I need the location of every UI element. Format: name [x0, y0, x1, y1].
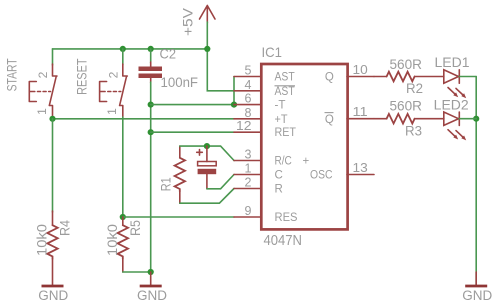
node C1 top junction	[204, 143, 210, 149]
pin 6 -T	[234, 92, 286, 112]
resistor R4	[35, 211, 73, 286]
pin 8 +T	[234, 106, 288, 126]
LED2	[434, 97, 469, 140]
node RES tap junction	[120, 214, 126, 220]
svg-text:AST: AST	[275, 86, 295, 98]
svg-text:Q: Q	[325, 114, 334, 126]
IC U1 4047N box	[261, 44, 347, 249]
wire row pin9 RES	[123, 216, 234, 218]
node junction top rail at RESET	[120, 46, 126, 52]
wire LED2 to right rail	[459, 118, 476, 120]
wire row pin12	[151, 131, 234, 133]
svg-text:5: 5	[245, 64, 252, 78]
svg-text:9: 9	[245, 204, 252, 218]
svg-text:3: 3	[245, 148, 252, 162]
svg-text:+: +	[303, 156, 310, 168]
svg-text:LED1: LED1	[435, 55, 470, 70]
svg-text:560R: 560R	[390, 57, 423, 72]
pin 5 AST	[234, 64, 295, 84]
svg-text:GND: GND	[462, 288, 492, 303]
wire C1 bottom net to pin1	[207, 175, 234, 189]
svg-text:C: C	[275, 170, 283, 182]
svg-text:R4: R4	[58, 220, 73, 236]
svg-text:IC1: IC1	[262, 44, 283, 60]
node START bottom junction	[49, 116, 55, 122]
svg-text:RESET: RESET	[74, 58, 90, 95]
svg-text:2: 2	[106, 71, 120, 78]
ground GND3	[462, 272, 492, 303]
svg-text:R1: R1	[159, 177, 174, 191]
svg-text:10k0: 10k0	[105, 224, 120, 256]
svg-text:R5: R5	[128, 220, 143, 236]
node junction top rail at C2	[148, 46, 154, 52]
svg-text:R2: R2	[406, 81, 423, 96]
svg-text:1: 1	[35, 108, 49, 115]
resistor R1	[159, 146, 186, 203]
svg-text:C2: C2	[160, 47, 177, 62]
svg-text:START: START	[4, 58, 20, 91]
pin 11 /Q	[325, 105, 375, 126]
node row12 tap junction	[148, 129, 154, 135]
wire START top drop	[52, 49, 54, 65]
switch S2 RESET	[100, 64, 128, 118]
svg-text:13: 13	[353, 161, 368, 175]
switch S1 START	[29, 64, 57, 118]
wire R1 top net to pin3	[180, 146, 234, 160]
svg-text:4: 4	[245, 78, 252, 92]
wire row pin6	[151, 104, 234, 106]
resistor R5	[105, 217, 143, 272]
svg-text:12: 12	[236, 119, 252, 133]
svg-text:AST: AST	[275, 72, 295, 84]
svg-text:RES: RES	[275, 212, 298, 224]
pin 10 Q	[325, 63, 374, 84]
node R5 ground junction	[148, 269, 154, 275]
svg-text:R: R	[275, 184, 283, 196]
wire C2 ground column	[150, 82, 152, 272]
svg-text:560R: 560R	[390, 99, 423, 114]
wire RESET top drop	[122, 49, 124, 65]
capacitor C2	[139, 47, 199, 90]
svg-text:R3: R3	[405, 123, 422, 138]
svg-text:Q: Q	[325, 72, 334, 84]
svg-text:4047N: 4047N	[264, 233, 303, 249]
svg-text:GND: GND	[137, 288, 167, 303]
ground GND2	[137, 272, 167, 303]
svg-text:1: 1	[245, 162, 252, 176]
wire RESET column down to R5	[122, 117, 124, 217]
wire row pin8	[53, 118, 235, 120]
pin 9 RES	[234, 204, 298, 224]
svg-text:100nF: 100nF	[161, 75, 199, 90]
svg-text:11: 11	[353, 105, 368, 119]
svg-text:10: 10	[353, 63, 368, 77]
resistor R2 560R	[374, 57, 444, 96]
node junction top rail at +5V	[204, 46, 210, 52]
node pins tie junction	[231, 102, 237, 108]
svg-text:+5V: +5V	[181, 8, 196, 36]
svg-text:R/C: R/C	[275, 156, 292, 168]
pin 1 C	[234, 162, 283, 182]
svg-text:RET: RET	[275, 127, 297, 139]
svg-text:OSC: OSC	[310, 170, 333, 182]
LED1	[435, 55, 470, 98]
pin 12 RET	[234, 119, 296, 139]
capacitor C1 polarized	[197, 146, 217, 189]
wire +5V column down to rail and pin4 feed	[207, 22, 234, 91]
svg-text:8: 8	[245, 106, 252, 120]
resistor R3 560R	[374, 99, 444, 139]
wire right rail down to ground	[475, 77, 477, 286]
wire R5 bottom jog to ground	[123, 271, 151, 273]
node C2 bottom junction	[148, 102, 154, 108]
svg-text:6: 6	[245, 92, 252, 106]
wire LED1 to right rail	[459, 76, 476, 78]
svg-text:1: 1	[105, 108, 119, 115]
svg-text:10k0: 10k0	[35, 224, 50, 256]
wire R1 bottom net to pin2	[180, 189, 234, 204]
pin 3 R/C	[234, 148, 310, 168]
pin 4 /AST	[234, 78, 295, 98]
wire START column down to R4	[52, 119, 54, 212]
pin 13 OSC	[310, 161, 374, 182]
wire top +5V rail	[53, 48, 208, 50]
svg-text:2: 2	[36, 71, 50, 78]
ground GND1	[38, 286, 68, 303]
+5V supply symbol	[181, 6, 216, 37]
pin 2 R	[234, 176, 283, 196]
svg-text:+T: +T	[275, 114, 288, 126]
svg-text:2: 2	[245, 176, 252, 190]
svg-text:-T: -T	[275, 100, 286, 112]
svg-text:GND: GND	[38, 288, 68, 303]
node LED2 rail junction	[473, 116, 479, 122]
wire pins 5-4-6 vertical tie	[233, 77, 235, 105]
svg-text:LED2: LED2	[434, 97, 469, 112]
